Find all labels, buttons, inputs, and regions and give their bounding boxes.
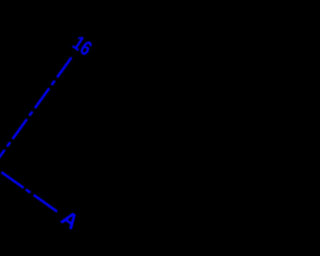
svg-text:16: 16 — [69, 31, 97, 60]
svg-text:A: A — [57, 206, 83, 235]
